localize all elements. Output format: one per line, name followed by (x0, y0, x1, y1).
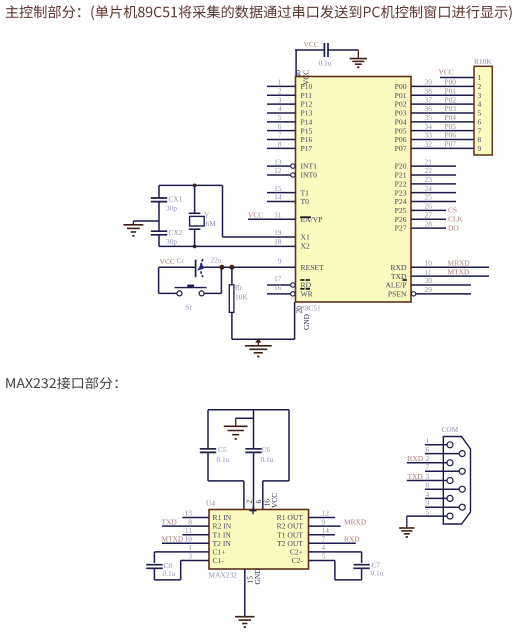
wire U4 pin 12 (309, 517, 335, 519)
capacitor C decoupling 0.1u (plates) (323, 43, 325, 57)
svg-text:RXD: RXD (408, 454, 424, 463)
svg-text:U4: U4 (206, 499, 215, 508)
svg-text:EA/VP: EA/VP (301, 215, 323, 224)
svg-text:30: 30 (425, 276, 433, 285)
svg-text:Rr: Rr (235, 283, 243, 292)
wire C7 left vertical (334, 561, 336, 580)
wire pin 2 (267, 94, 296, 96)
wire X1 vertical (222, 185, 224, 237)
resistor Rr body (229, 285, 234, 313)
svg-text:6: 6 (426, 445, 430, 454)
wire pin 14 (267, 201, 296, 203)
svg-text:13: 13 (274, 157, 282, 166)
svg-text:0.1u: 0.1u (217, 455, 230, 464)
svg-text:RXD: RXD (344, 535, 360, 544)
wire pin 17 (267, 284, 291, 286)
svg-text:COM: COM (442, 425, 459, 434)
svg-text:38: 38 (425, 86, 433, 95)
svg-text:P04: P04 (445, 113, 457, 122)
svg-text:4: 4 (478, 100, 482, 109)
svg-text:TXD: TXD (408, 472, 424, 481)
wire pin 36 to R10K pin 5 (411, 112, 474, 114)
svg-text:Cr: Cr (177, 256, 185, 265)
svg-text:25: 25 (425, 193, 433, 202)
svg-text:PSEN: PSEN (388, 289, 407, 298)
wire pin 39 to R10K pin 2 (411, 85, 474, 87)
wire pin 22 (411, 174, 456, 176)
svg-text:C1-: C1- (213, 556, 225, 565)
inversion bubble pin 16 (291, 292, 295, 296)
capacitor C5 plates (200, 448, 216, 450)
ground (charge pump) (235, 418, 237, 426)
wire U4 pin 11 (182, 534, 209, 536)
svg-text:8: 8 (278, 140, 282, 149)
svg-text:P00: P00 (395, 82, 407, 91)
wire pin 5 (267, 121, 296, 123)
junction arrow at ground stem (255, 338, 261, 342)
DB9 right pin circle 6 (459, 451, 465, 457)
svg-text:P15: P15 (301, 126, 313, 135)
svg-text:P25: P25 (395, 206, 407, 215)
wire VCC drop pin16 (262, 481, 264, 510)
svg-text:7: 7 (426, 463, 430, 472)
svg-text:33: 33 (425, 131, 433, 140)
wire U4 pin15 GND drop (244, 569, 246, 617)
svg-text:MRXD: MRXD (448, 259, 471, 268)
DB9 left pin circle 1 (447, 442, 453, 448)
wire DB9 pin 5 (407, 515, 447, 517)
svg-text:20: 20 (295, 306, 304, 314)
switch Sr actuator (187, 285, 194, 288)
wire pin 12 (267, 174, 291, 176)
svg-text:24: 24 (425, 184, 433, 193)
wire VCC rail right segment (328, 49, 358, 51)
svg-text:28: 28 (425, 219, 433, 228)
wire pin 1 (267, 85, 296, 87)
wire DB9 pin 8 (425, 488, 459, 490)
svg-text:7: 7 (278, 131, 282, 140)
wire C8 top vertical (153, 552, 155, 563)
wire pin 25 (411, 201, 456, 203)
svg-text:P23: P23 (395, 188, 407, 197)
wire DB9 pin5 to ground (406, 516, 408, 528)
svg-text:17: 17 (274, 274, 282, 283)
svg-text:VCC: VCC (160, 257, 175, 266)
svg-text:8: 8 (426, 481, 430, 490)
wire pin 10 RXD (411, 266, 489, 268)
wire C8 bottom vertical (153, 568, 155, 580)
wire DB9 pin 1 (425, 444, 447, 446)
svg-text:11: 11 (425, 267, 432, 276)
wire pin 33 to R10K pin 8 (411, 139, 474, 141)
svg-text:15: 15 (274, 184, 282, 193)
wire C8 bottom rail (154, 579, 180, 581)
wire reset top left (159, 266, 196, 268)
svg-text:1: 1 (426, 436, 430, 445)
svg-text:3: 3 (188, 552, 192, 561)
svg-text:VCC: VCC (439, 68, 454, 77)
wire resistor bottom lead (231, 312, 233, 339)
wire pin 30 ALE/P (411, 284, 471, 286)
svg-text:P07: P07 (445, 140, 457, 149)
wire ground stub (236, 417, 254, 419)
svg-text:30p: 30p (166, 204, 177, 213)
svg-text:WR: WR (301, 289, 314, 298)
svg-text:2: 2 (478, 82, 482, 91)
wire C8 right vertical (180, 561, 182, 580)
switch Sr bar (175, 287, 207, 289)
svg-text:P16: P16 (301, 135, 313, 144)
crystal Y1 top plate (189, 212, 201, 214)
svg-text:27: 27 (425, 210, 433, 219)
wire VCC rail left segment (295, 49, 324, 51)
svg-text:0.1u: 0.1u (371, 569, 384, 578)
wire C6 branch lower to pin 6 (253, 453, 255, 510)
svg-text:P07: P07 (395, 144, 407, 153)
wire VCC to R10K pin 1 (440, 77, 474, 79)
svg-text:VCC: VCC (304, 40, 319, 49)
svg-text:CS: CS (448, 206, 457, 215)
wire reset left vertical (158, 267, 160, 293)
capacitor C6 plates (245, 448, 261, 450)
wire DB9 pin 2 (407, 462, 447, 464)
svg-text:CX2: CX2 (169, 228, 183, 237)
wire left vertical mid (158, 202, 160, 232)
wire charge-pump loop top (208, 409, 289, 411)
svg-text:R10K: R10K (474, 57, 492, 66)
wire U4 pin 7 (309, 542, 356, 544)
svg-text:DO: DO (448, 223, 459, 232)
svg-text:22u: 22u (211, 256, 222, 265)
svg-text:36: 36 (425, 104, 433, 113)
wire pin 28 (411, 227, 446, 229)
svg-text:10: 10 (425, 259, 433, 268)
wire pin 13 (267, 165, 291, 167)
wire pin 8 (267, 147, 296, 149)
wire pin 38 to R10K pin 3 (411, 94, 474, 96)
junction dot crystal top (193, 184, 197, 188)
wire U4 pin 3 (181, 560, 209, 562)
wire pin 11 TXD (411, 275, 489, 277)
svg-text:C2-: C2- (292, 556, 304, 565)
svg-text:P05: P05 (395, 126, 407, 135)
wire U4 pin 9 (309, 525, 341, 527)
svg-text:CLK: CLK (448, 214, 463, 223)
svg-text:P00: P00 (445, 78, 457, 87)
crystal Y1 bottom plate (189, 228, 201, 230)
svg-text:9: 9 (478, 144, 482, 153)
DB9 left pin circle 5 (447, 513, 453, 519)
svg-text:10K: 10K (235, 292, 248, 301)
svg-text:GND: GND (302, 313, 311, 330)
svg-text:37: 37 (425, 95, 433, 104)
svg-text:VCC: VCC (270, 493, 279, 508)
capacitor C7 plates (353, 564, 369, 566)
wire U4 pin 5 (309, 560, 335, 562)
wire pin 29 PSEN (416, 293, 471, 295)
wire pin 21 (411, 165, 456, 167)
svg-text:34: 34 (425, 122, 433, 131)
ground (reset/chip) (257, 339, 259, 346)
wire left vertical top (to CX1) (158, 185, 160, 198)
IC U4 MAX232 body (209, 510, 309, 570)
wire DB9 pin 7 (425, 470, 459, 472)
wire pin40 stub into chip top (295, 50, 297, 77)
wire switch right lead (204, 292, 221, 294)
wire U4 pin 1 (154, 551, 209, 553)
svg-text:12: 12 (274, 166, 282, 175)
section text: MAX232接口部分： (6, 377, 117, 389)
svg-text:INT1: INT1 (301, 162, 318, 171)
svg-text:6M: 6M (206, 219, 217, 228)
svg-text:23: 23 (425, 175, 433, 184)
svg-text:MAX232: MAX232 (209, 571, 238, 580)
wire pin20 drop from chip (294, 302, 296, 339)
wire pin 15 (267, 192, 296, 194)
svg-text:T1: T1 (301, 188, 310, 197)
wire pin 32 to R10K pin 9 (411, 147, 474, 149)
svg-text:1: 1 (278, 78, 282, 87)
wire C7 bottom rail (335, 579, 362, 581)
svg-text:MTXD: MTXD (448, 267, 470, 276)
svg-text:19: 19 (274, 228, 282, 237)
wire crystal branch top (194, 185, 196, 213)
wire pin 6 (267, 130, 296, 132)
svg-text:P14: P14 (301, 117, 313, 126)
svg-text:P12: P12 (301, 100, 313, 109)
svg-text:5: 5 (426, 508, 430, 517)
svg-text:P24: P24 (395, 197, 407, 206)
ground (DB9 shell) (406, 526, 408, 528)
svg-text:9: 9 (426, 499, 430, 508)
ground (crystal) (132, 221, 134, 225)
svg-text:Sr: Sr (185, 303, 192, 312)
svg-text:MRXD: MRXD (344, 518, 367, 527)
wire loop left vertical upper (207, 410, 209, 449)
svg-text:P27: P27 (395, 224, 407, 233)
svg-text:5: 5 (322, 552, 326, 561)
svg-text:39: 39 (425, 78, 433, 87)
inversion bubble pin 17 (291, 283, 295, 287)
svg-text:6: 6 (278, 122, 282, 131)
wire pin 7 (267, 139, 296, 141)
svg-text:C5: C5 (218, 445, 227, 454)
DB9 right pin circle 7 (459, 468, 465, 474)
wire loop right vertical (288, 410, 290, 481)
svg-text:29: 29 (425, 285, 433, 294)
svg-text:CX1: CX1 (169, 195, 183, 204)
wire DB9 pin 3 (407, 480, 447, 482)
svg-text:7: 7 (478, 126, 482, 135)
ground tap wire (133, 220, 159, 222)
svg-text:P02: P02 (445, 95, 457, 104)
svg-text:89C51: 89C51 (301, 304, 321, 313)
svg-text:P03: P03 (445, 104, 457, 113)
wire U4 pin 14 (309, 534, 335, 536)
svg-text:P02: P02 (395, 100, 407, 109)
DB9 right pin circle 8 (459, 486, 465, 492)
svg-text:P06: P06 (445, 131, 457, 140)
svg-text:4: 4 (278, 104, 282, 113)
wire loop bottom right (263, 480, 289, 482)
junction dot crystal bottom (193, 245, 197, 249)
svg-text:P04: P04 (395, 117, 407, 126)
svg-text:P22: P22 (395, 179, 407, 188)
svg-text:P05: P05 (445, 122, 457, 131)
svg-text:P26: P26 (395, 215, 407, 224)
capacitor Cr plate (straight) (195, 260, 197, 278)
wire pin 24 (411, 192, 456, 194)
capacitor CX2 plates (151, 230, 167, 232)
DB9 left pin circle 2 (447, 460, 453, 466)
svg-text:MTXD: MTXD (162, 535, 184, 544)
svg-text:X2: X2 (301, 241, 310, 250)
svg-text:0.1u: 0.1u (319, 59, 332, 68)
polarity plus mark (250, 507, 257, 514)
svg-text:RXD: RXD (390, 263, 407, 272)
wire DB9 pin 6 (425, 453, 459, 455)
resistor network R10K body (474, 66, 492, 155)
svg-text:C6: C6 (262, 445, 271, 454)
svg-text:INT0: INT0 (301, 171, 318, 180)
wire pin 16 (267, 293, 291, 295)
wire pin 37 to R10K pin 4 (411, 103, 474, 105)
wire DB9 pin 4 (425, 497, 447, 499)
svg-text:2: 2 (278, 86, 282, 95)
inversion bubble pin 29 (411, 292, 415, 296)
wire crystal branch bottom (194, 229, 196, 246)
wire reset top right (201, 266, 296, 268)
svg-text:X1: X1 (301, 233, 310, 242)
svg-text:9: 9 (278, 256, 282, 265)
DB9 left pin circle 3 (447, 478, 453, 484)
svg-text:VCC: VCC (248, 211, 263, 220)
svg-text:3: 3 (426, 472, 430, 481)
wire pin 23 (411, 183, 456, 185)
svg-text:32: 32 (425, 140, 433, 149)
svg-text:P10: P10 (301, 82, 313, 91)
crystal Y1 body (190, 216, 205, 226)
wire ground rail bottom (232, 338, 295, 340)
svg-text:5: 5 (278, 113, 282, 122)
svg-text:P01: P01 (395, 91, 407, 100)
svg-text:T0: T0 (301, 197, 310, 206)
wire switch left lead (159, 292, 177, 294)
svg-text:31: 31 (274, 210, 282, 219)
wire XTAL top rail (159, 184, 223, 186)
capacitor Cr polarity arrow (197, 262, 203, 270)
svg-text:P20: P20 (395, 162, 407, 171)
capacitor CX1 plates (151, 197, 167, 199)
svg-text:5: 5 (478, 109, 482, 118)
svg-text:RESET: RESET (301, 263, 325, 272)
svg-text:4: 4 (426, 490, 430, 499)
svg-text:1: 1 (478, 73, 482, 82)
DB9 right pin circle 9 (459, 504, 465, 510)
ground (top decoupling) (357, 50, 359, 59)
inversion bubble pin 12 (291, 173, 295, 177)
svg-text:0.1u: 0.1u (261, 455, 274, 464)
svg-text:P17: P17 (301, 144, 313, 153)
connector COM body (443, 437, 470, 525)
svg-text:6: 6 (478, 117, 482, 126)
svg-text:3: 3 (278, 95, 282, 104)
wire pin 3 (267, 103, 296, 105)
junction dot reset A (219, 265, 224, 270)
IC U1 89C51 body (296, 77, 412, 303)
wire C7 top vertical (361, 552, 363, 563)
svg-text:P21: P21 (395, 171, 407, 180)
wire switch vertical (220, 267, 222, 293)
switch Sr left contact (177, 291, 182, 296)
svg-text:16: 16 (274, 283, 282, 292)
title text: 主控制部分：(单片机89C51将采集的数据通过串口发送到PC机控制窗口进行显示) (6, 5, 512, 20)
wire loop bottom left (208, 480, 244, 482)
capacitor Cr plate (curved) (201, 259, 203, 277)
wire pin 4 (267, 112, 296, 114)
svg-text:P01: P01 (445, 86, 457, 95)
inversion bubble pin 13 (291, 164, 295, 168)
svg-text:P11: P11 (301, 91, 313, 100)
svg-text:18: 18 (274, 237, 282, 246)
svg-text:21: 21 (425, 157, 433, 166)
wire DB9 pin 9 (425, 506, 459, 508)
wire U4 pin 13 (182, 517, 209, 519)
svg-text:30p: 30p (166, 237, 177, 246)
wire V+ drop pin2 (243, 481, 245, 510)
wire U4 pin 4 (309, 551, 362, 553)
svg-text:26: 26 (425, 202, 433, 211)
wire pin 35 to R10K pin 6 (411, 121, 474, 123)
wire pin 27 (411, 218, 446, 220)
switch Sr right contact (199, 291, 204, 296)
DB9 left pin circle 4 (447, 495, 453, 501)
wire resistor top lead (231, 267, 233, 285)
svg-text:0.1u: 0.1u (163, 569, 176, 578)
wire C6 branch upper (253, 410, 255, 449)
svg-text:ALE/P: ALE/P (385, 281, 406, 290)
svg-text:35: 35 (425, 113, 433, 122)
wire X2 rail (159, 245, 296, 247)
svg-text:P03: P03 (395, 109, 407, 118)
svg-text:2: 2 (245, 500, 254, 504)
svg-text:TXD: TXD (162, 518, 178, 527)
svg-text:8: 8 (478, 135, 482, 144)
wire U4 pin 8 (162, 525, 209, 527)
wire pin 19 X1 (223, 236, 296, 238)
svg-text:GND: GND (253, 568, 262, 585)
wire U4 pin 10 (162, 542, 209, 544)
wire pin 31 (248, 218, 296, 220)
svg-text:P13: P13 (301, 109, 313, 118)
svg-text:22: 22 (425, 166, 433, 175)
wire C7 bottom vertical (361, 568, 363, 580)
wire pin 34 to R10K pin 7 (411, 130, 474, 132)
wire pin 26 (411, 209, 446, 211)
wire left vertical bottom (158, 235, 160, 247)
ground (U4 pin15) (244, 615, 246, 618)
svg-text:14: 14 (274, 193, 282, 202)
capacitor C8 plates (146, 564, 162, 566)
junction dot reset B (229, 265, 234, 270)
svg-text:3: 3 (478, 91, 482, 100)
wire loop left vertical lower (207, 453, 209, 481)
svg-text:P06: P06 (395, 135, 407, 144)
